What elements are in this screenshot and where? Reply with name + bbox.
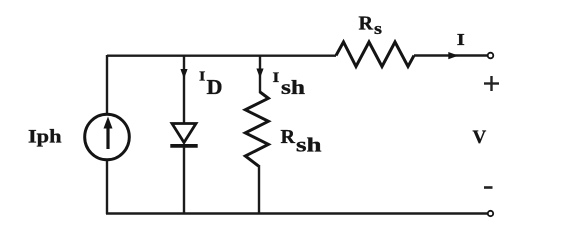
current source U1 circle: [85, 114, 130, 160]
terminal node + (open circle): [488, 53, 494, 59]
arrow I (output current, rightward): [448, 52, 458, 59]
svg-text:D: D: [207, 75, 223, 99]
current source arrow (upward): [104, 117, 113, 150]
label R_sh: [281, 126, 322, 156]
svg-text:I: I: [199, 70, 205, 85]
minus sign: [484, 186, 493, 189]
label I (output current): [457, 30, 465, 49]
diode D1: [170, 124, 197, 146]
terminal node - (open circle): [488, 211, 493, 216]
wire Rsh branch lower: [258, 165, 260, 214]
label I_sh: [273, 70, 306, 99]
wire diode branch upper: [183, 55, 185, 124]
arrow Ish (current into shunt): [256, 69, 263, 79]
svg-text:sh: sh: [281, 77, 305, 99]
resistor Rs (horizontal zigzag): [336, 42, 414, 67]
resistor Rsh (vertical zigzag): [245, 92, 268, 166]
wire left rail top segment: [106, 55, 108, 115]
svg-text:s: s: [374, 19, 382, 38]
plus sign: [484, 76, 499, 91]
wire Rsh branch upper: [259, 55, 261, 93]
svg-text:sh: sh: [296, 134, 322, 156]
svg-text:R: R: [281, 126, 296, 148]
arrow ID (current into diode): [180, 69, 187, 79]
wire bottom rail: [106, 212, 488, 214]
svg-text:I: I: [273, 70, 280, 86]
label V (terminal voltage): [473, 127, 487, 148]
label Iph: [28, 127, 62, 148]
wire Rs to output terminal: [414, 54, 487, 56]
label R_s: [359, 13, 383, 39]
label I_D: [199, 70, 223, 100]
svg-text:R: R: [359, 13, 374, 35]
wire top rail: [107, 55, 336, 57]
svg-text:V: V: [473, 127, 487, 148]
svg-text:Iph: Iph: [28, 127, 62, 148]
wire left rail bottom segment: [106, 159, 108, 214]
svg-text:I: I: [457, 30, 465, 49]
wire diode branch lower: [183, 147, 185, 214]
